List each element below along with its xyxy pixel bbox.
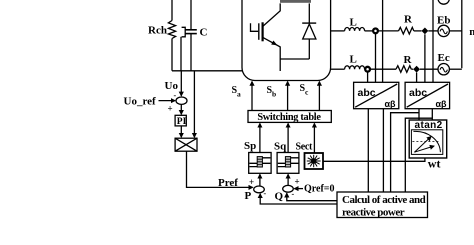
source Eb bbox=[437, 15, 450, 37]
svg-text:-: - bbox=[264, 189, 267, 198]
svg-text:Uo: Uo bbox=[165, 80, 179, 92]
node current sensor phase b bbox=[373, 29, 378, 34]
sector detector Sect bbox=[296, 142, 324, 170]
svg-text:Qref=0: Qref=0 bbox=[304, 183, 335, 194]
svg-text:Pref: Pref bbox=[218, 177, 238, 189]
wire Q feedback from power calc bbox=[287, 193, 337, 200]
svg-text:a: a bbox=[237, 90, 241, 99]
wire v-beta branch bbox=[391, 109, 419, 192]
svg-text:L: L bbox=[350, 17, 357, 29]
wire phase b bbox=[331, 14, 462, 35]
svg-text:Eb: Eb bbox=[437, 15, 450, 27]
svg-text:+: + bbox=[249, 177, 254, 187]
source Ec bbox=[438, 52, 450, 75]
svg-text:+: + bbox=[295, 177, 300, 187]
node current sensor phase c bbox=[365, 67, 370, 72]
svg-text:Q: Q bbox=[275, 191, 284, 203]
svg-text:wt: wt bbox=[428, 156, 441, 170]
wire v-alpha branch bbox=[405, 109, 432, 192]
wire multiplier to P junction (Pref) bbox=[187, 151, 253, 189]
switching table bbox=[248, 111, 331, 123]
svg-text:Ec: Ec bbox=[438, 52, 450, 64]
svg-text:P: P bbox=[245, 190, 252, 202]
wire Sect to switching table bbox=[313, 124, 315, 154]
phase angle block atan2 bbox=[409, 120, 447, 170]
PI controller bbox=[175, 115, 187, 127]
node Qref=0 input bbox=[294, 183, 334, 194]
transistor Q1 (IGBT) bbox=[251, 3, 281, 71]
wire leg bottom rail bbox=[280, 58, 309, 60]
source Ea (cut off at top) bbox=[438, 0, 449, 4]
svg-text:αβ: αβ bbox=[436, 99, 448, 109]
svg-text:R: R bbox=[404, 54, 413, 66]
node voltage tap phase c bbox=[413, 66, 420, 73]
svg-text:abc: abc bbox=[409, 87, 427, 99]
svg-text:Uo_ref: Uo_ref bbox=[124, 96, 157, 108]
svg-text:Sq: Sq bbox=[274, 140, 287, 152]
svg-text:abc: abc bbox=[358, 87, 376, 99]
svg-text:Calcul of active and: Calcul of active and bbox=[342, 194, 426, 206]
converter box bbox=[242, 0, 331, 81]
svg-text:Switching table: Switching table bbox=[257, 112, 321, 123]
wire Sb gate signal bbox=[267, 82, 288, 111]
wire ic measurement bbox=[367, 72, 369, 83]
wire va measurement bbox=[432, 0, 434, 82]
svg-text:Sp: Sp bbox=[244, 140, 256, 152]
wire neutral n bbox=[462, 0, 474, 68]
summing junction P bbox=[245, 177, 267, 202]
svg-text:b: b bbox=[272, 90, 276, 99]
svg-text:L: L bbox=[350, 54, 357, 66]
DC bus bar bbox=[280, 0, 311, 3]
node Uo tap bbox=[165, 71, 182, 96]
wire P feedback from power calc bbox=[260, 194, 337, 204]
wire i-beta to power calc bbox=[382, 109, 384, 192]
svg-text:αβ: αβ bbox=[385, 99, 397, 109]
diode D1 bbox=[302, 3, 316, 59]
capacitor C bbox=[181, 0, 208, 71]
summing junction Q bbox=[275, 177, 300, 203]
svg-text:+: + bbox=[168, 104, 173, 114]
wire phase c bbox=[331, 54, 462, 73]
resistor Rch bbox=[148, 0, 176, 71]
wire wt to Sect bbox=[323, 158, 425, 161]
svg-text:Sect: Sect bbox=[296, 142, 314, 153]
wire PI to multiplier bbox=[180, 126, 182, 137]
node Uo_ref input bbox=[124, 96, 176, 108]
hysteresis comparator Sq bbox=[274, 140, 299, 173]
transform block abc-alphabeta currents bbox=[354, 82, 399, 109]
wire DC bus bottom bbox=[172, 70, 243, 72]
wire vc measurement bbox=[416, 73, 418, 83]
wire summing to PI bbox=[180, 104, 182, 114]
wire ib measurement bbox=[375, 33, 377, 82]
wire ia measurement bbox=[382, 0, 384, 82]
wire i-alpha to power calc bbox=[367, 109, 369, 192]
wire vb measurement bbox=[424, 34, 426, 82]
wire P junction to Sp bbox=[259, 174, 261, 186]
wire Sp to switching table bbox=[259, 124, 261, 153]
power calculator bbox=[337, 192, 428, 219]
wire Sq to switching table bbox=[287, 124, 289, 153]
svg-text:PI: PI bbox=[177, 117, 187, 127]
transform block abc-alphabeta voltages bbox=[405, 82, 450, 109]
svg-text:C: C bbox=[200, 27, 208, 39]
summing junction Uo bbox=[168, 91, 188, 114]
multiplier bbox=[175, 138, 197, 151]
wire Uo to multiplier bbox=[193, 71, 195, 137]
svg-text:reactive power: reactive power bbox=[342, 207, 405, 219]
svg-text:R: R bbox=[404, 14, 413, 26]
wire Sc gate signal bbox=[300, 82, 320, 111]
svg-text:-: - bbox=[292, 190, 295, 199]
node voltage tap phase b bbox=[422, 28, 429, 35]
hysteresis comparator Sp bbox=[244, 140, 271, 173]
wire Sa gate signal bbox=[232, 82, 253, 111]
svg-text:Rch: Rch bbox=[148, 25, 167, 37]
wire Q junction to Sq bbox=[287, 174, 289, 185]
svg-text:-: - bbox=[174, 91, 177, 100]
svg-text:n: n bbox=[469, 26, 474, 38]
